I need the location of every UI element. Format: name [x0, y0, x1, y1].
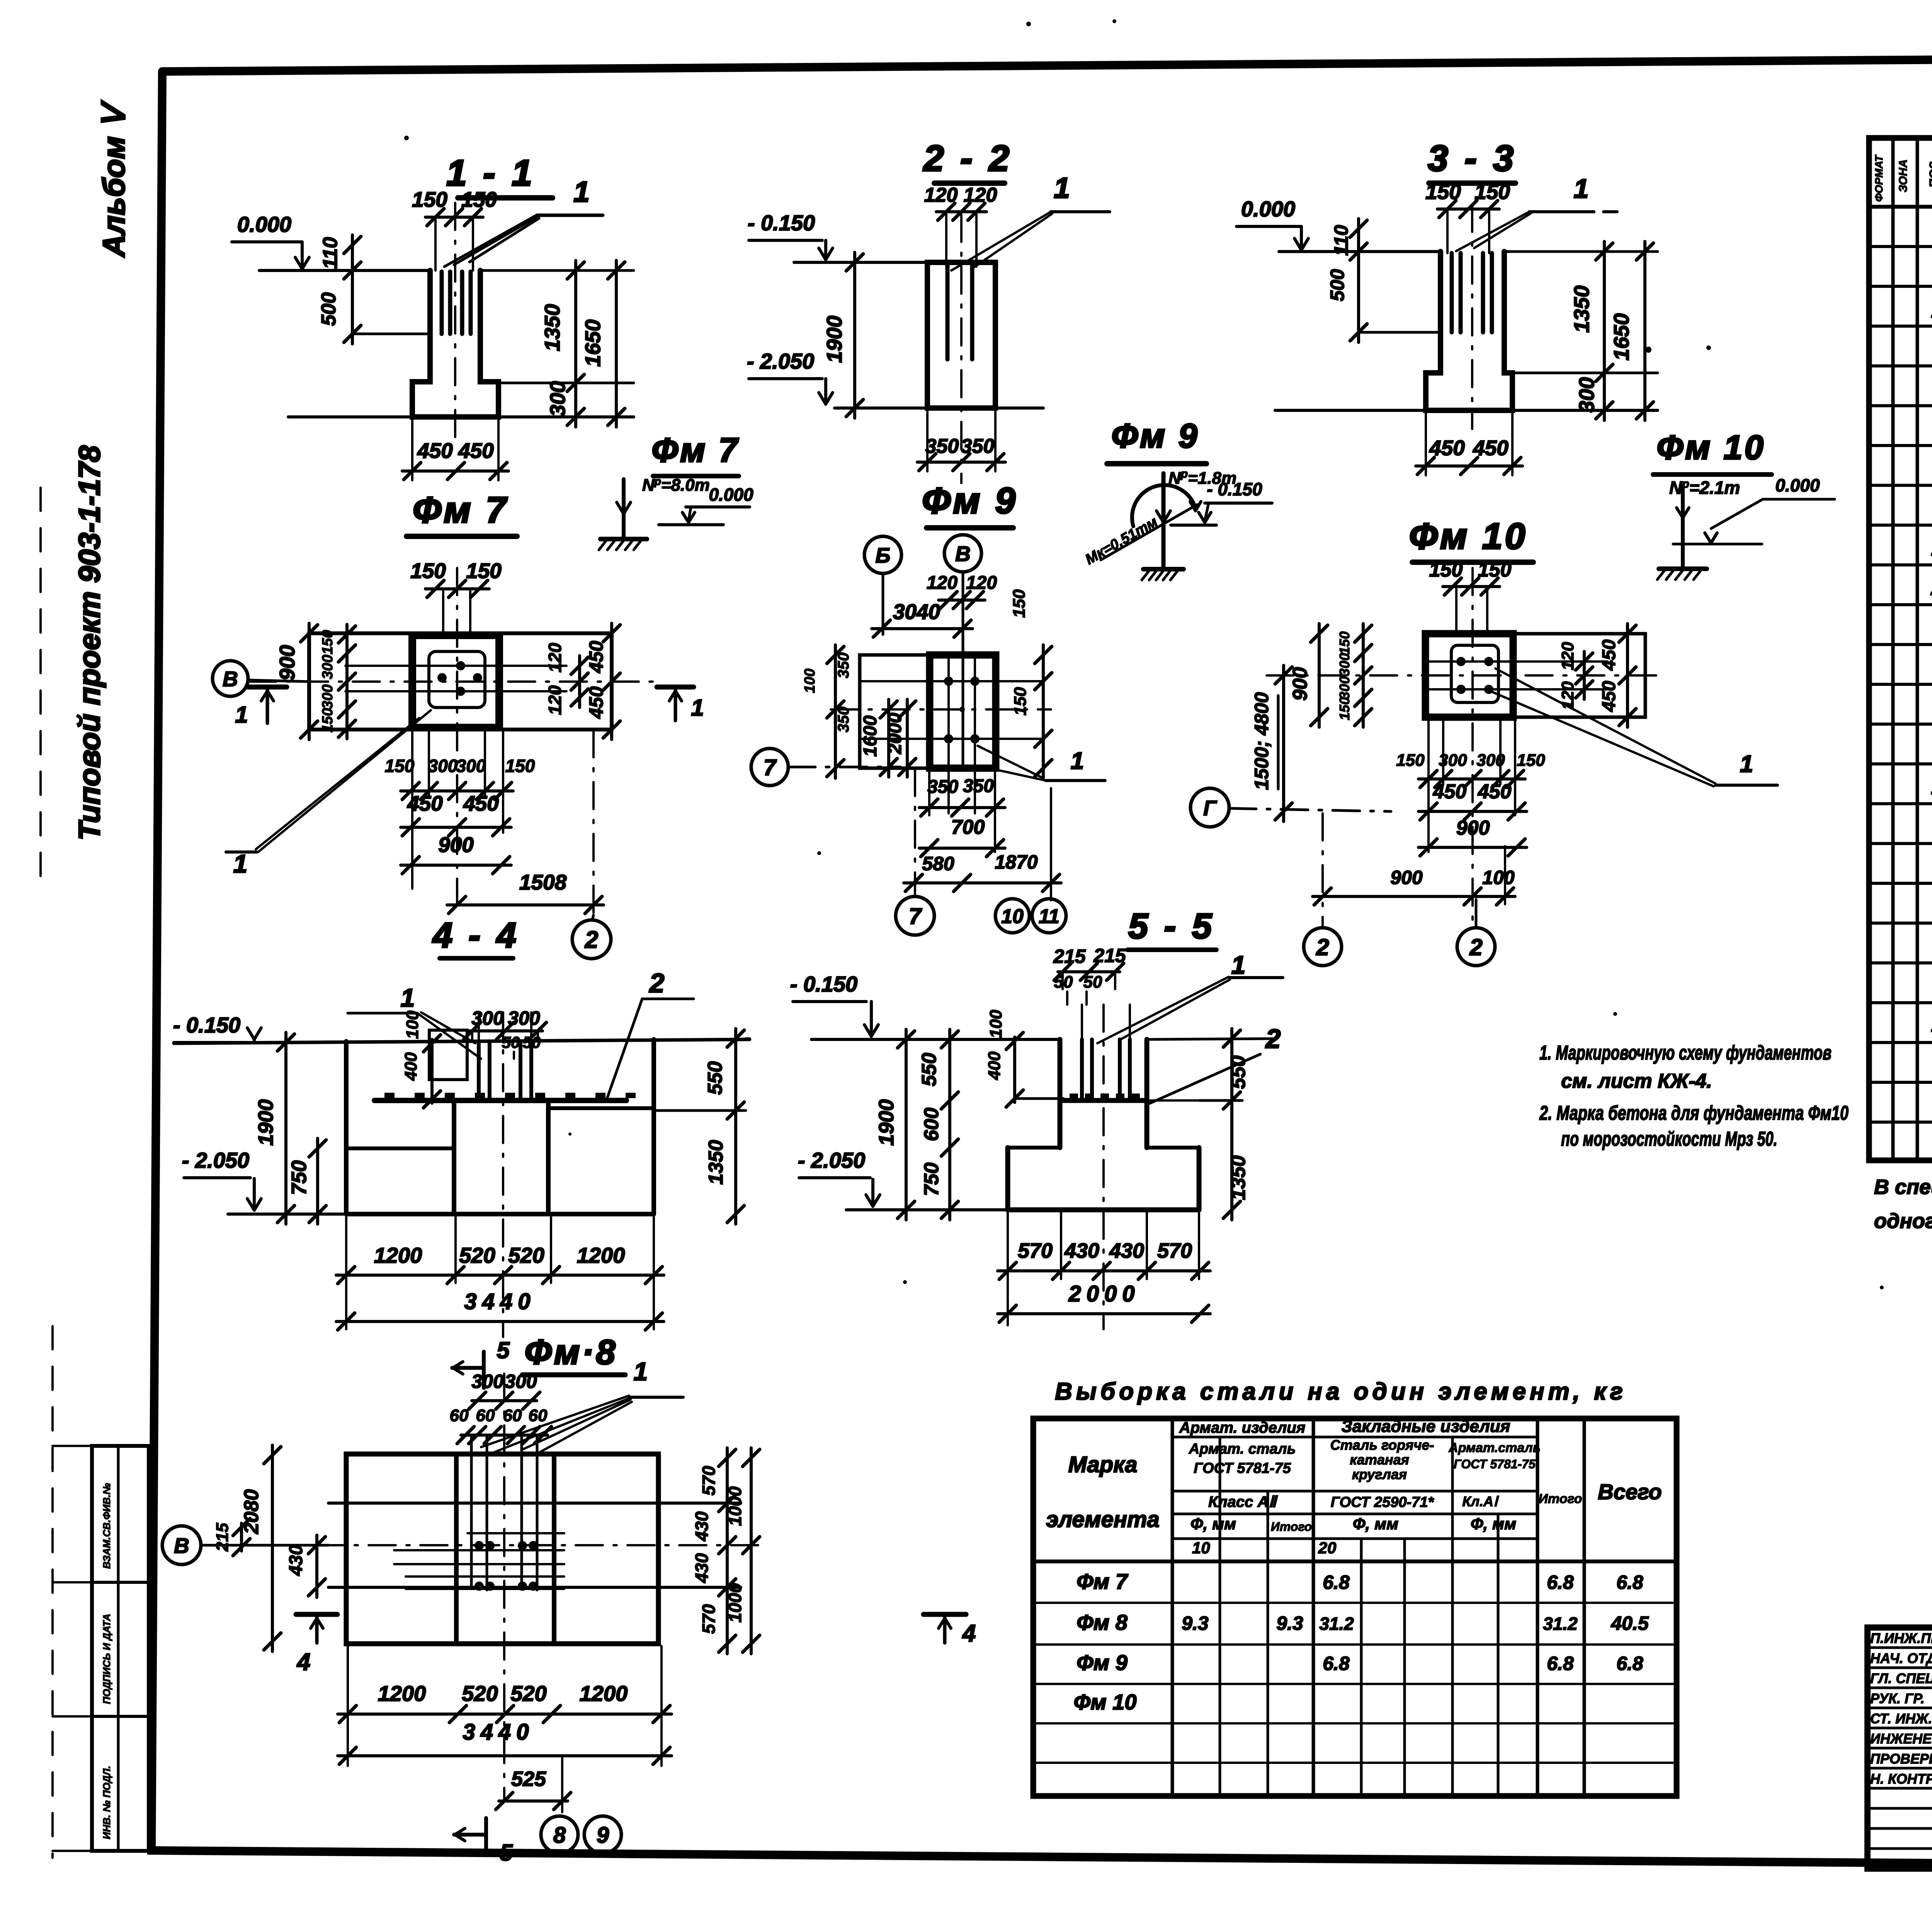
svg-text:215: 215	[213, 1523, 232, 1552]
svg-text:1870: 1870	[995, 851, 1037, 873]
section 5-5 bottom dim 570 430 430 570	[998, 1212, 1210, 1325]
svg-text:ИНЖЕНЕР: ИНЖЕНЕР	[1870, 1731, 1932, 1747]
steel table row Fm9	[1077, 1650, 1643, 1675]
svg-text:Фм 7: Фм 7	[651, 431, 739, 469]
section 1-1 left dims 110 500	[318, 235, 430, 344]
svg-text:Б: Б	[876, 543, 891, 567]
svg-text:3440: 3440	[463, 1719, 534, 1745]
svg-text:- 0.150: - 0.150	[748, 211, 815, 235]
svg-text:900: 900	[275, 645, 299, 680]
svg-text:Класс АⅡ: Класс АⅡ	[1208, 1493, 1278, 1510]
plan Fm7 left dim chain 150 300 300 150	[320, 624, 355, 739]
svg-text:6.8: 6.8	[1616, 1653, 1643, 1674]
svg-text:Фм 10: Фм 10	[1409, 516, 1528, 557]
plan Fm8 outer outline	[346, 1454, 658, 1644]
plan Fm7 column square	[412, 635, 499, 728]
steel table data row lines	[1033, 1603, 1677, 1763]
section 4-4 anchor bolts	[479, 1012, 531, 1099]
svg-text:60: 60	[476, 1406, 495, 1425]
spec table Fm10 row MN2	[1931, 1013, 1932, 1036]
section 4-4 mesh C5 bar	[374, 1093, 636, 1100]
svg-text:1: 1	[1231, 951, 1246, 979]
svg-text:150: 150	[320, 708, 336, 732]
svg-text:100: 100	[802, 668, 818, 693]
left margin fold dash line lower	[51, 1326, 54, 1858]
notes text line 3	[1539, 1102, 1849, 1124]
scan speck dots	[404, 19, 1932, 1616]
load sketch Fm9 moment arc	[1132, 485, 1201, 526]
svg-text:Ф, мм: Ф, мм	[1353, 1515, 1398, 1533]
section 5-5 level -2.050	[798, 1148, 1008, 1210]
plan Fm7 section mark 1 right	[657, 687, 704, 721]
plan Fm9 bottom dim 700	[919, 816, 1005, 857]
svg-text:300: 300	[505, 1371, 537, 1392]
svg-text:ГЛ. СПЕЦ.: ГЛ. СПЕЦ.	[1870, 1670, 1932, 1686]
svg-text:900: 900	[1456, 817, 1490, 839]
steel table row Fm7	[1077, 1569, 1643, 1594]
svg-text:500: 500	[1327, 269, 1348, 301]
svg-text:900: 900	[1289, 667, 1311, 701]
section 2-2 axis line	[960, 215, 963, 483]
section 1-1 level mark 0.000	[232, 212, 309, 269]
plan Fm7 anchor plate	[429, 651, 485, 707]
section 3-3 left dims 110 500	[1327, 219, 1440, 342]
load sketch Fm10 ground	[1657, 569, 1707, 580]
svg-text:900: 900	[1390, 867, 1423, 888]
svg-text:2: 2	[1265, 1024, 1281, 1054]
svg-text:430: 430	[692, 1511, 712, 1541]
spec table Fm7 row MN2	[1931, 299, 1932, 322]
section 3-3 axis line	[1471, 205, 1473, 429]
svg-text:430: 430	[1109, 1239, 1144, 1262]
section 4-4 dims 400 100	[401, 1010, 440, 1108]
notes text line 2	[1561, 1070, 1712, 1092]
section 5-5 title	[1128, 906, 1216, 950]
svg-text:Итого: Итого	[1271, 1520, 1312, 1534]
section 1-1 bottom dim 450 450	[402, 419, 509, 480]
svg-text:Марка: Марка	[1068, 1452, 1137, 1477]
left margin stamp boxes	[53, 1446, 149, 1851]
svg-text:750: 750	[920, 1163, 943, 1196]
title block signature row lines	[1867, 1648, 1932, 1849]
svg-text:1600: 1600	[860, 715, 881, 757]
section 2-2 bottom dim 350 350	[917, 410, 1005, 471]
svg-text:1350: 1350	[1570, 285, 1594, 333]
svg-text:400: 400	[401, 1052, 420, 1081]
svg-text:150: 150	[1337, 631, 1352, 655]
plan Fm9 bottom dim 350 350	[919, 770, 1005, 852]
svg-text:П.ИНЖ.ПР: П.ИНЖ.ПР	[1870, 1630, 1932, 1646]
title block outer frame	[1867, 1628, 1932, 1869]
plan Fm10 anchor dots	[1456, 657, 1493, 694]
svg-text:- 2.050: - 2.050	[747, 349, 814, 373]
section 4-4 left dim 750	[287, 1138, 326, 1224]
steel table row Fm10	[1074, 1690, 1137, 1714]
svg-text:1: 1	[1071, 748, 1084, 774]
svg-text:0.000: 0.000	[1775, 475, 1820, 495]
svg-text:430: 430	[1064, 1239, 1099, 1262]
svg-text:2000: 2000	[1068, 1281, 1140, 1306]
svg-text:150: 150	[461, 187, 497, 211]
svg-text:300: 300	[320, 684, 336, 709]
load sketch Fm9 level -0.150	[1171, 479, 1272, 525]
svg-text:300: 300	[456, 756, 486, 776]
svg-text:4 - 4: 4 - 4	[432, 916, 519, 955]
svg-text:31.2: 31.2	[1319, 1614, 1354, 1634]
svg-text:0.000: 0.000	[709, 485, 753, 505]
svg-text:900: 900	[438, 833, 474, 857]
plan Fm9 grid circle 7 bottom	[896, 896, 934, 935]
plan Fm10 right dim 450 450	[1599, 624, 1636, 727]
load sketch Fm9 load label	[1168, 468, 1236, 488]
svg-text:1: 1	[233, 849, 248, 878]
svg-text:150: 150	[412, 187, 447, 211]
svg-text:одного изделия.: одного изделия.	[1874, 1209, 1932, 1233]
svg-text:110: 110	[1330, 225, 1352, 256]
svg-text:10: 10	[1192, 1539, 1210, 1557]
section 1-1 foundation outline	[412, 270, 498, 417]
plan Fm9 left dim chain 100 350 350	[802, 645, 852, 778]
section 2-2 bottom line	[835, 406, 1043, 410]
section 3-3 title	[1428, 138, 1517, 183]
svg-text:120: 120	[927, 573, 957, 593]
left margin vertical text Album V	[97, 100, 131, 258]
svg-text:350: 350	[927, 777, 958, 797]
svg-text:3440: 3440	[464, 1289, 536, 1314]
svg-text:450: 450	[407, 791, 443, 815]
plan Fm8 vertical axis	[503, 1374, 505, 1801]
plan Fm9 column square	[930, 655, 996, 768]
plan Fm7 bottom dim 900	[401, 833, 511, 874]
section 5-5 anchor bolts	[1082, 1005, 1130, 1099]
section 2-2 rebar bars	[947, 262, 972, 359]
svg-text:РУК. ГР.: РУК. ГР.	[1870, 1690, 1925, 1706]
svg-text:300: 300	[508, 1007, 540, 1029]
notes text line 1	[1539, 1042, 1832, 1064]
plan Fm8 section mark 5 bottom	[454, 1818, 513, 1866]
spec table Fm9 row MN2	[1931, 776, 1932, 799]
svg-text:1500; 4800: 1500; 4800	[1251, 692, 1272, 790]
section 1-1 bottom ground line	[288, 415, 634, 418]
section 5-5 axis line	[1102, 1005, 1105, 1329]
steel table header lines	[1033, 1437, 1677, 1561]
section 5-5 bottom dim 2000	[998, 1281, 1210, 1322]
svg-text:525: 525	[511, 1767, 546, 1791]
section 1-1 right dim 1650	[581, 260, 625, 427]
svg-text:1350: 1350	[705, 1140, 727, 1185]
section 4-4 level -0.150	[173, 1013, 261, 1043]
plan Fm7 bottom dim chain 150 300 300 150	[385, 730, 535, 889]
section 5-5 level -0.150	[790, 972, 878, 1036]
svg-text:110: 110	[319, 237, 342, 269]
svg-text:ГОСТ 2590-71*: ГОСТ 2590-71*	[1331, 1494, 1435, 1510]
svg-text:5: 5	[497, 1337, 510, 1363]
svg-text:150: 150	[1011, 687, 1030, 716]
section 5-5 foundation outline	[1008, 1039, 1199, 1210]
section 1-1 right dim 1350 300	[498, 260, 634, 427]
svg-text:100: 100	[986, 1010, 1005, 1038]
svg-text:6.8: 6.8	[1323, 1571, 1350, 1593]
svg-text:150: 150	[1337, 697, 1352, 720]
svg-text:Кл.АⅠ: Кл.АⅠ	[1462, 1493, 1499, 1509]
plan Fm8 rebar bundle lines	[394, 1533, 564, 1589]
svg-text:1200: 1200	[378, 1681, 426, 1706]
svg-text:Фм 7: Фм 7	[1077, 1569, 1129, 1594]
plan Fm10 bottom dim 900 100	[1313, 813, 1515, 927]
svg-text:Г: Г	[1203, 796, 1217, 820]
load sketch Fm10 load arrow	[1677, 486, 1689, 568]
svg-text:300: 300	[546, 381, 570, 417]
svg-text:6.8: 6.8	[1616, 1571, 1643, 1593]
svg-text:150: 150	[1010, 589, 1029, 618]
plan Fm9 anchor dots	[944, 677, 980, 743]
plan Fm8 bottom dim 3440	[338, 1719, 672, 1764]
load sketch Fm7 load label	[642, 475, 710, 495]
svg-text:100: 100	[403, 1010, 422, 1039]
plan Fm10 column square	[1425, 634, 1513, 717]
svg-text:элемента: элемента	[1046, 1507, 1160, 1532]
svg-text:60: 60	[503, 1406, 522, 1425]
svg-text:20: 20	[1318, 1539, 1337, 1557]
plan Fm8 step lines horizontal	[328, 1503, 741, 1587]
svg-text:- 2.050: - 2.050	[182, 1148, 249, 1172]
section 5-5 right dim 550 1350	[1147, 1029, 1250, 1220]
plan Fm9 callout 1	[978, 746, 1105, 781]
svg-text:150: 150	[320, 630, 336, 654]
svg-text:1: 1	[1574, 173, 1589, 204]
section 3-3 top dim 150 150	[1425, 180, 1510, 253]
svg-text:Альбом Ⅴ: Альбом Ⅴ	[97, 100, 131, 258]
section 2-2 column outline	[927, 262, 995, 408]
svg-text:450: 450	[1599, 681, 1619, 712]
plan Fm8 left dim 215	[213, 1519, 250, 1556]
plan Fm8 top dim 300 300	[469, 1371, 540, 1409]
section 1-1 axis line	[454, 203, 456, 439]
svg-text:ВЗАМ.СВ.ФИВ.№: ВЗАМ.СВ.ФИВ.№	[101, 1483, 112, 1569]
load sketch Fm9 title	[1107, 417, 1206, 464]
section 1-1 floor line	[259, 269, 634, 272]
section 4-4 left dim 1900	[254, 1032, 294, 1224]
svg-text:Ф, мм: Ф, мм	[1471, 1515, 1516, 1533]
svg-text:ИНВ. № ПОДЛ.: ИНВ. № ПОДЛ.	[101, 1766, 112, 1839]
svg-text:Н. КОНТР.: Н. КОНТР.	[1870, 1771, 1932, 1787]
plan Fm10 callout 1	[1492, 668, 1777, 786]
plan Fm10 left dim 900	[1289, 624, 1328, 727]
svg-text:1650: 1650	[581, 319, 605, 367]
svg-text:60: 60	[529, 1406, 548, 1425]
svg-text:350: 350	[835, 653, 852, 679]
plan Fm7 rebar lines	[345, 666, 566, 691]
load sketch Fm7 load arrow	[617, 479, 631, 538]
svg-text:круглая: круглая	[1352, 1466, 1407, 1482]
svg-text:Фм·8: Фм·8	[525, 1333, 618, 1372]
section 4-4 title	[432, 916, 519, 958]
svg-text:Фм 9: Фм 9	[1111, 417, 1199, 455]
svg-text:ГОСТ 5781-75: ГОСТ 5781-75	[1454, 1457, 1536, 1471]
section 5-5 floor line	[811, 1039, 1275, 1039]
svg-text:0.000: 0.000	[1241, 197, 1295, 221]
svg-text:350: 350	[835, 707, 852, 733]
svg-text:Армат.сталь: Армат.сталь	[1448, 1440, 1541, 1455]
svg-text:350: 350	[963, 776, 994, 796]
svg-text:ЗОНА: ЗОНА	[1897, 159, 1910, 192]
svg-text:2: 2	[1316, 934, 1329, 960]
plan Fm10 anchor plate	[1451, 645, 1498, 702]
svg-text:2. Марка бетона для фундамента: 2. Марка бетона для фундамента Фм10	[1539, 1102, 1849, 1124]
svg-text:120: 120	[545, 685, 565, 715]
svg-text:350: 350	[925, 435, 959, 457]
svg-text:ГОСТ 5781-75: ГОСТ 5781-75	[1194, 1460, 1291, 1476]
svg-text:В: В	[223, 667, 238, 691]
plan Fm10 grid circles 2 2	[1304, 900, 1495, 966]
svg-text:570: 570	[699, 1466, 719, 1495]
svg-text:9.3: 9.3	[1182, 1612, 1209, 1634]
svg-text:1000: 1000	[725, 1583, 745, 1622]
svg-text:300: 300	[428, 756, 458, 776]
svg-text:- 2.050: - 2.050	[798, 1148, 865, 1172]
plan Fm8 bottom dim 1200 520 520 1200	[338, 1646, 672, 1766]
section 3-3 bottom dim 450 450	[1416, 413, 1522, 475]
svg-text:1: 1	[235, 702, 248, 728]
spec table outer frame	[1869, 138, 1932, 1160]
svg-text:Nр=2.1т: Nр=2.1т	[1669, 478, 1740, 498]
spec table header row line	[1869, 205, 1932, 209]
plan Fm7 section mark 1 left	[235, 687, 287, 728]
svg-text:Армат. сталь: Армат. сталь	[1189, 1441, 1296, 1457]
plan Fm9 dim 3040	[872, 600, 973, 637]
section 2-2 level mark -0.150	[748, 211, 833, 260]
plan Fm7 bottom dim 1508	[447, 730, 604, 920]
svg-text:Фм 9: Фм 9	[922, 480, 1018, 521]
section 1-1 rebar bars	[442, 272, 471, 334]
left margin fold dash line upper	[39, 488, 42, 893]
svg-text:по морозостойкости Мрз 50.: по морозостойкости Мрз 50.	[1561, 1128, 1777, 1150]
spec table header texts	[1873, 154, 1932, 202]
svg-text:120: 120	[545, 643, 565, 672]
svg-text:350: 350	[961, 435, 995, 457]
svg-text:Типовой проект 903-1-178: Типовой проект 903-1-178	[72, 445, 106, 840]
spec table vertical lines	[1893, 138, 1932, 1160]
plan Fm8 section mark 4 right	[923, 1614, 976, 1647]
section 2-2 left dim 1900	[822, 252, 863, 418]
svg-text:2: 2	[649, 968, 665, 998]
svg-text:9.3: 9.3	[1276, 1612, 1303, 1634]
plan Fm10 grid circle G	[1190, 788, 1391, 827]
section 5-5 callout 2	[1146, 1024, 1281, 1105]
svg-text:520: 520	[459, 1243, 495, 1267]
load sketch Fm7 title	[651, 431, 739, 476]
plan Fm10 footing outline	[1425, 634, 1645, 717]
plan Fm9 grid circle V	[944, 535, 981, 768]
plan Fm7 top dim 150 150	[410, 559, 502, 634]
svg-text:2080: 2080	[240, 1489, 263, 1534]
section 2-2 floor line	[794, 261, 927, 264]
svg-text:430: 430	[692, 1553, 712, 1583]
svg-text:1650: 1650	[1609, 313, 1633, 361]
svg-text:40.5: 40.5	[1611, 1612, 1649, 1634]
section 4-4 callout 2	[607, 968, 694, 1097]
svg-text:ФОРМАТ: ФОРМАТ	[1873, 154, 1885, 202]
plan Fm10 right dim 120 120	[1558, 642, 1593, 710]
spec table Fm8 row C5	[1930, 577, 1932, 600]
section 4-4 callout 1	[348, 983, 481, 1059]
section 4-4 right dim 550 1350	[654, 1029, 750, 1224]
section 4-4 top dim 50 50	[502, 1033, 541, 1059]
svg-text:7: 7	[909, 904, 922, 929]
plan Fm8 top dim 60 60 60 60	[450, 1406, 551, 1444]
svg-text:В спецификации в графе „Прим: В спецификации в графе „Примечание” указ…	[1874, 1175, 1932, 1199]
svg-text:150: 150	[1517, 751, 1545, 770]
steel table header texts	[1046, 1417, 1662, 1557]
svg-text:Армат. изделия: Армат. изделия	[1179, 1419, 1306, 1436]
section 5-5 top dim 50 50	[1054, 973, 1102, 1005]
section 2-2 rebar callout 1	[951, 172, 1110, 270]
plan Fm8 horizontal axis	[317, 1544, 765, 1546]
plan Fm8 left dim 2080	[240, 1445, 281, 1651]
svg-text:700: 700	[951, 816, 985, 838]
plan Fm9 grid lines in square	[860, 655, 1043, 813]
plan Fm8 right dims 1000 1000	[725, 1448, 760, 1654]
spec table row lines	[1869, 247, 1932, 1122]
svg-text:Nр=8.0т: Nр=8.0т	[642, 475, 710, 495]
svg-text:ПОДПИСЬ И ДАТА: ПОДПИСЬ И ДАТА	[101, 1614, 112, 1704]
svg-text:1: 1	[573, 175, 590, 208]
svg-text:см. лист КЖ-4.: см. лист КЖ-4.	[1561, 1070, 1712, 1092]
plan Fm10 bottom dim 450 450	[1418, 781, 1527, 820]
svg-text:1: 1	[691, 695, 704, 721]
section 3-3 rebar bars	[1452, 253, 1492, 332]
plan Fm7 grid circle 2	[572, 915, 611, 959]
svg-text:100: 100	[1482, 867, 1515, 888]
svg-text:8: 8	[553, 1823, 566, 1848]
plan Fm8 right dims 570 430 430 570	[692, 1448, 736, 1654]
svg-text:9: 9	[597, 1823, 609, 1848]
svg-text:Закладные изделия: Закладные изделия	[1341, 1417, 1510, 1436]
plan Fm7 right dim 120 120	[545, 643, 588, 715]
svg-text:0.000: 0.000	[237, 212, 291, 236]
plan Fm8 title with section mark 5	[452, 1333, 625, 1388]
svg-text:Фм 8: Фм 8	[1077, 1610, 1128, 1634]
svg-text:катаная: катаная	[1350, 1452, 1409, 1468]
svg-text:1: 1	[1054, 172, 1070, 204]
plan Fm8 grid circles 8 9	[541, 1816, 621, 1853]
svg-text:Всего: Всего	[1598, 1480, 1662, 1504]
svg-text:750: 750	[287, 1160, 311, 1195]
plan Fm10 vertical axis	[1471, 568, 1474, 925]
plan Fm8 left dim 430	[286, 1535, 325, 1597]
svg-text:60: 60	[450, 1406, 469, 1425]
section 5-5 left dims 550 600 750	[918, 1029, 958, 1220]
svg-text:1350: 1350	[540, 304, 564, 351]
section 5-5 left dim 1900	[875, 1029, 915, 1220]
svg-text:150: 150	[505, 756, 535, 776]
svg-text:450: 450	[1478, 781, 1512, 803]
section 3-3 foundation outline	[1426, 252, 1512, 410]
load sketch Fm7 ground	[599, 539, 647, 550]
svg-text:- 0.150: - 0.150	[790, 972, 857, 996]
svg-text:300: 300	[1337, 653, 1352, 676]
section 3-3 subtitle Fm 10	[1409, 516, 1533, 562]
svg-text:150: 150	[410, 559, 446, 583]
section 4-4 floor line	[174, 1039, 750, 1043]
plan Fm7 right dim 450 450	[585, 623, 620, 740]
svg-text:550: 550	[704, 1061, 726, 1095]
svg-text:4: 4	[962, 1620, 976, 1647]
load sketch Fm7 level 0.000	[659, 485, 753, 525]
plan Fm9 grid circle B	[864, 536, 901, 634]
svg-text:В: В	[955, 542, 971, 566]
plan Fm9 right dim 150 150	[1010, 589, 1052, 778]
